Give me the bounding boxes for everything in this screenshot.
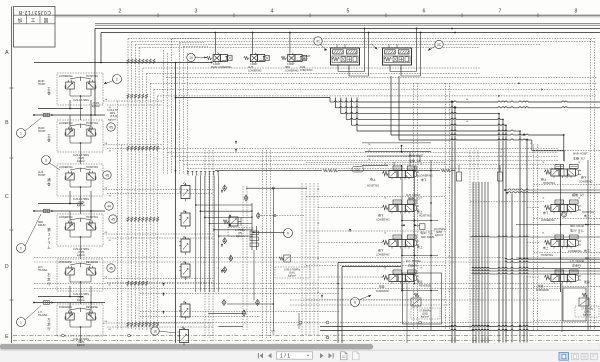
svg-text:REVERSE: REVERSE xyxy=(86,261,98,264)
wire bottom return bus 2 xyxy=(320,330,451,332)
remote control valve pair P2 (main hoist) xyxy=(57,120,103,152)
wire bank bus 8 (feeds B1 tank) xyxy=(399,139,451,141)
balloon 6 ref xyxy=(284,229,293,238)
main control valve row A1 (main hoist 2) xyxy=(383,166,420,180)
svg-text:巻上: 巻上 xyxy=(417,210,423,214)
SOL label box xyxy=(352,167,364,173)
pilot line dashed vertical x121.5 xyxy=(121,145,123,330)
sheet inner frame line upper xyxy=(95,22,600,24)
svg-text:CHECKING: CHECKING xyxy=(300,69,313,72)
wire cluster center daisy-chain xyxy=(80,105,82,120)
wire P6 ports up xyxy=(69,303,71,318)
check valve CV8 xyxy=(242,310,246,316)
balloon 16 ref xyxy=(151,327,159,335)
main control valve row A4 xyxy=(383,270,420,284)
svg-text:REVERSE: REVERSE xyxy=(419,285,431,288)
wire A column B rail xyxy=(414,166,416,284)
svg-text:kgf/cm²: kgf/cm² xyxy=(288,275,296,278)
svg-text:巻上: 巻上 xyxy=(584,214,590,218)
svg-text:SOL: SOL xyxy=(355,169,361,172)
svg-text:LOWERING: LOWERING xyxy=(59,216,73,219)
svg-text:TRAVEL: TRAVEL xyxy=(38,314,48,317)
sheet top edge line xyxy=(55,16,600,18)
pressure note SQ1 xyxy=(275,267,310,278)
toolbar view-mode button 4 xyxy=(591,353,598,360)
coiled hose symbols y60 xyxy=(127,59,129,64)
balloon 8 ref xyxy=(351,298,360,307)
toolbar last-page button xyxy=(329,353,333,358)
wire pilot supply bus Y1 xyxy=(95,28,600,30)
wire bottom center links xyxy=(227,303,273,305)
svg-text:kgf/cm²: kgf/cm² xyxy=(236,235,244,238)
svg-text:8: 8 xyxy=(354,300,356,304)
svg-text:巻上: 巻上 xyxy=(417,245,423,249)
wire inter-column links B2 feeds xyxy=(505,189,508,191)
wire bank bus 1 (corner) xyxy=(329,98,331,103)
pilot line bundle horizontal top xyxy=(128,38,595,40)
wire inter-column hop row y237 xyxy=(470,236,472,238)
svg-text:kgf/cm²: kgf/cm² xyxy=(583,314,591,317)
wire bottom-right vertical bundle A xyxy=(472,182,474,343)
horizontal scrollbar thumb xyxy=(0,344,373,349)
svg-text:D: D xyxy=(5,264,9,270)
horizontal scrollbar track xyxy=(0,344,600,351)
sheet border top rule xyxy=(55,14,600,16)
wire A1 risers xyxy=(393,162,395,166)
pressure note CB-B xyxy=(575,306,599,317)
relief valve RV1 xyxy=(223,217,241,226)
pilot line dashed vertical x117.5 xyxy=(117,101,119,330)
wire P5 ports down xyxy=(69,286,71,297)
svg-text:0.29-1.47MPa: 0.29-1.47MPa xyxy=(73,99,89,102)
wire supply joint line pair 1 xyxy=(38,108,83,110)
wire PB1 P port xyxy=(348,65,350,76)
pilot line verticals center-low xyxy=(204,150,206,338)
check valve CV9 xyxy=(256,300,260,306)
svg-text:前進: 前進 xyxy=(538,284,544,288)
svg-text:HOIST: HOIST xyxy=(38,174,46,177)
svg-text:8: 8 xyxy=(575,8,578,14)
coiled hose symbols y218 xyxy=(127,217,129,222)
svg-text:巻下: 巻下 xyxy=(581,176,587,180)
check valve CV2 xyxy=(244,195,248,201)
svg-text:10: 10 xyxy=(189,56,193,60)
svg-text:3: 3 xyxy=(45,158,47,162)
balloon 45 ref b xyxy=(103,171,111,179)
svg-text:kgf/cm²: kgf/cm² xyxy=(77,254,85,257)
drain line dash-dot bottom 1 xyxy=(13,335,600,337)
junction dots right bank rows xyxy=(401,225,403,227)
svg-text:kgf/cm²: kgf/cm² xyxy=(421,316,429,319)
pilot operated block PB2 xyxy=(383,48,412,65)
wire P4 ports up xyxy=(69,211,71,227)
remote control valve pair P4 (3rd drum) xyxy=(57,214,103,246)
tank return gallery xyxy=(251,203,253,250)
svg-text:巻上: 巻上 xyxy=(543,246,549,250)
svg-text:HOISTING: HOISTING xyxy=(86,75,98,78)
svg-text:ラ: ラ xyxy=(47,240,50,245)
cartridge valve bottom (ref 16) xyxy=(178,327,189,346)
balloon 41 ref xyxy=(314,37,322,45)
check valve CV3 xyxy=(256,213,260,219)
svg-text:1 / 1: 1 / 1 xyxy=(280,353,290,359)
svg-text:kgf/cm²: kgf/cm² xyxy=(92,105,100,108)
svg-text:45: 45 xyxy=(109,266,113,270)
svg-text:LOWERING: LOWERING xyxy=(248,69,262,72)
balloon 45 ref c xyxy=(109,215,117,223)
svg-text:主巻（1）: 主巻（1） xyxy=(573,156,587,161)
PB2 lever arrow xyxy=(371,44,378,50)
sub enclosure box B4 xyxy=(563,288,586,321)
PB1 top stubs xyxy=(336,44,338,48)
coiled hose symbols y95 xyxy=(127,94,129,99)
svg-text:後退: 後退 xyxy=(417,280,423,284)
svg-text:2: 2 xyxy=(119,8,122,14)
svg-text:HOISTING: HOISTING xyxy=(86,166,98,169)
svg-text:1: 1 xyxy=(20,320,22,324)
svg-text:C0J53712-B: C0J53712-B xyxy=(18,9,51,15)
wire SV1 pilot riser xyxy=(214,33,216,53)
port rings bottom xyxy=(326,321,329,324)
svg-text:FORWARD: FORWARD xyxy=(536,289,549,292)
sequence valve SQ1 xyxy=(279,255,290,262)
svg-text:3: 3 xyxy=(48,232,50,236)
wire pump line drop x175.5 xyxy=(175,63,177,344)
wire SV3 pilot riser xyxy=(289,33,291,53)
svg-text:7: 7 xyxy=(499,8,502,14)
wire A4 internal drop xyxy=(406,283,408,343)
toolbar first-page button xyxy=(260,353,264,358)
svg-text:1: 1 xyxy=(20,131,22,135)
coiled hose symbols y323 xyxy=(127,322,129,327)
svg-text:第3ドラム: 第3ドラム xyxy=(570,228,584,233)
wire bottom-left return pair xyxy=(337,263,339,344)
solenoid valve SV1 (3way main lowering) xyxy=(207,53,233,64)
toolbar next-page button xyxy=(320,353,324,358)
check valve CV4 xyxy=(223,238,227,244)
PB2 top stubs xyxy=(388,44,390,48)
wire inter-column links B4 feeds xyxy=(472,267,474,268)
svg-text:E: E xyxy=(5,334,9,340)
wire B column links xyxy=(560,214,562,225)
wire P3 ports down xyxy=(69,191,71,204)
wire A1 feed stubs xyxy=(365,151,431,153)
svg-text:6: 6 xyxy=(287,231,289,235)
pilot line bundle vertical center (manifold feeds) xyxy=(163,50,165,174)
pilot line verticals x302-318 (enclosure) xyxy=(301,183,303,335)
remote control valve pair P5 (RH travel) xyxy=(57,259,103,291)
tank symbol T2 xyxy=(297,325,301,329)
svg-text:LOWERING: LOWERING xyxy=(59,166,73,169)
wire manifold link y215 dashed xyxy=(261,215,304,217)
remote control valve pair P1 (main hoist) xyxy=(57,73,103,105)
wire A column riser xyxy=(430,160,432,330)
svg-text:kgf/cm²: kgf/cm² xyxy=(77,299,85,302)
svg-text:2: 2 xyxy=(116,77,118,81)
svg-text:3RD. DRUM: 3RD. DRUM xyxy=(421,236,434,239)
svg-text:MAIN HOIST: MAIN HOIST xyxy=(573,153,588,156)
balloon 1 ref #1 xyxy=(17,129,26,138)
enclosure dashed verticals x470-478 xyxy=(469,150,471,330)
svg-text:kgf/cm²: kgf/cm² xyxy=(108,119,116,122)
hose coupling 2 xyxy=(44,209,50,213)
main control valve row B3 (3rd drum) xyxy=(545,235,582,249)
wire pump line with coil from frame xyxy=(34,62,212,64)
solenoid valve SV3 (3way 3rd lowering) xyxy=(281,53,307,64)
remote control valve pair P3 (aux hoist) xyxy=(57,164,103,196)
toolbar next-view button xyxy=(353,352,360,360)
balloon 2 ref (P1) xyxy=(113,75,122,84)
svg-text:DRUM: DRUM xyxy=(38,224,46,227)
pilot line bundle bottom horizontals xyxy=(34,283,560,285)
wire bank bus 7 (feeds B1) xyxy=(391,134,451,136)
balloon 45 ref a xyxy=(107,123,115,131)
wire P1 ports to joint lines xyxy=(69,100,71,109)
balloon 10 ref xyxy=(187,53,195,61)
svg-text:kgf/cm²: kgf/cm² xyxy=(77,160,85,163)
svg-text:44: 44 xyxy=(107,204,111,208)
svg-text:HOIST: HOIST xyxy=(38,130,46,133)
pilot operated block PB1 xyxy=(331,48,360,65)
toolbar page number field xyxy=(277,352,313,359)
toolbar previous-page button xyxy=(268,353,272,358)
toolbar previous-view button xyxy=(341,352,348,360)
svg-text:kgf/cm²: kgf/cm² xyxy=(77,344,85,347)
sheet border left rule xyxy=(11,7,13,344)
manifold vertical extensions xyxy=(195,205,197,292)
small rect actuator a xyxy=(457,172,462,181)
svg-text:加: 加 xyxy=(18,17,23,24)
svg-text:第3ドラム: 第3ドラム xyxy=(421,231,433,235)
svg-text:巻下: 巻下 xyxy=(378,214,384,218)
wire bank bus 4 (corner) xyxy=(345,98,347,120)
balloon 1 ref #3 xyxy=(17,318,26,327)
tank symbol T1 xyxy=(271,331,275,335)
pilot line bundle vertical left (to remote control valves) xyxy=(127,39,129,331)
pressure note RV1 xyxy=(228,228,253,237)
svg-text:MAIN LOWERING: MAIN LOWERING xyxy=(211,66,232,69)
svg-text:HOISTING: HOISTING xyxy=(541,254,553,257)
pilot line bundle horizontal mid long xyxy=(150,82,597,84)
wire bank bus 6 (corner) xyxy=(356,98,358,132)
main control valve row B2 (aux hoist 2) xyxy=(545,200,582,214)
enclosure dashed rails column B xyxy=(534,149,600,151)
svg-text:A: A xyxy=(5,50,9,56)
svg-text:HOISTING: HOISTING xyxy=(86,122,98,125)
svg-text:4: 4 xyxy=(271,8,274,14)
wire B column P rail xyxy=(560,164,562,292)
svg-text:工: 工 xyxy=(31,18,36,23)
svg-text:右走行: 右走行 xyxy=(408,263,417,268)
svg-text:LOWERING: LOWERING xyxy=(376,254,390,257)
shuttle valve B2 xyxy=(561,212,566,217)
pilot line dashed y77.5 xyxy=(166,77,597,79)
drain line dash-dot bottom 2 xyxy=(13,340,600,342)
wire pilot supply bus Y2 xyxy=(101,32,600,34)
main control valve row A3 (RH travel) xyxy=(383,235,420,249)
wire manifold link y232 to balloon 6 xyxy=(252,231,285,233)
small rect actuator b xyxy=(498,172,503,181)
sheet inner frame line lower xyxy=(95,24,600,26)
hose coupling 1 xyxy=(44,113,50,117)
wire supply joint line pair 2 xyxy=(38,203,83,205)
balloon 4C ref xyxy=(435,40,443,48)
wire inter-column links B3 outs xyxy=(505,258,507,259)
balloon 44 ref xyxy=(105,202,113,210)
wire PB2 P port xyxy=(400,65,402,76)
svg-text:4C: 4C xyxy=(437,43,442,47)
sheet border row tick marks xyxy=(10,87,14,89)
sub enclosure box A4 xyxy=(403,273,442,324)
wire A column links xyxy=(401,214,403,221)
pilot line corner horizontals from center bundle xyxy=(172,38,201,40)
arrowheads on pilot bundle right xyxy=(518,82,520,84)
svg-text:巻下: 巻下 xyxy=(421,178,427,182)
svg-text:HOIST: HOIST xyxy=(38,83,46,86)
coiled hose symbols y147 xyxy=(127,146,129,151)
pilot line bundle mid horizontal cluster xyxy=(164,148,559,150)
check valve CV1 xyxy=(223,185,227,191)
vent arrows on pilot lines xyxy=(163,283,165,286)
balloon 1 ref #2 xyxy=(17,244,26,253)
title block cell separators xyxy=(26,15,28,24)
wire bank bus 5 (corner) xyxy=(351,98,353,126)
svg-text:巻上: 巻上 xyxy=(541,178,547,182)
svg-text:LOWERING: LOWERING xyxy=(579,181,593,184)
enclosure dashed rails column A xyxy=(306,162,445,164)
cylinder port marks bottom right xyxy=(452,337,488,343)
enclosure dashed verticals x590-597 xyxy=(590,39,592,331)
svg-text:ド: ド xyxy=(47,237,50,241)
cartridge valve stack xyxy=(179,183,190,202)
pilot line verticals x262-270 xyxy=(262,150,264,338)
toolbar view-mode button 2 xyxy=(572,353,579,360)
check valve CV5 xyxy=(229,255,233,261)
svg-text:LOWERING: LOWERING xyxy=(285,69,299,72)
balloon 3 ref (P3) xyxy=(42,156,51,165)
main control valve row B1 (main hoist 1) xyxy=(545,165,582,179)
svg-text:41: 41 xyxy=(316,39,320,43)
wire bus Y2 drop at left x101 xyxy=(100,33,102,63)
enclosure dashed verticals x445-452 xyxy=(445,83,447,330)
hose coupling 3 xyxy=(44,301,50,305)
svg-text:REVERSE: REVERSE xyxy=(86,306,98,309)
svg-text:BKT: BKT xyxy=(303,58,308,61)
svg-text:HOISTING: HOISTING xyxy=(367,185,379,188)
main control valve row B4 (LH travel) xyxy=(545,270,582,284)
title block frame xyxy=(14,7,56,48)
svg-text:3: 3 xyxy=(195,8,198,14)
svg-text:C: C xyxy=(5,194,9,200)
wire supply joint line pair 3 xyxy=(38,296,83,298)
sheet border column tick marks xyxy=(157,13,159,17)
wire B2 dashed feed y201.8 xyxy=(470,201,544,203)
svg-text:HOISTING: HOISTING xyxy=(86,216,98,219)
svg-text:16: 16 xyxy=(153,329,157,333)
counterbalance valve CB-A xyxy=(411,293,421,306)
enclosure dashed verticals x533-540 xyxy=(533,144,535,330)
svg-text:巻上: 巻上 xyxy=(370,178,376,182)
svg-text:6: 6 xyxy=(423,8,426,14)
svg-text:TRAVEL: TRAVEL xyxy=(38,269,48,272)
svg-text:前進: 前進 xyxy=(379,285,385,289)
check valve CV7 xyxy=(222,300,226,306)
svg-text:FORWARD: FORWARD xyxy=(59,261,72,264)
wire P2 ports up to joint lines xyxy=(69,115,71,133)
wire bus Y1 drop at left x95 xyxy=(94,29,96,116)
junction dots on Y buses xyxy=(451,28,453,30)
toolbar view-mode button 3 xyxy=(581,353,588,360)
svg-text:LOWERING: LOWERING xyxy=(59,75,73,78)
svg-text:LOWERING: LOWERING xyxy=(376,219,390,222)
coiled hose symbols y282 xyxy=(127,281,129,286)
svg-text:45: 45 xyxy=(105,173,109,177)
supply line to A-bank with hose coils xyxy=(215,170,322,172)
wire A column P rail xyxy=(401,166,403,291)
svg-text:HOISTING: HOISTING xyxy=(419,215,431,218)
wire right bank verticals descending xyxy=(451,102,453,343)
svg-text:FORWARD: FORWARD xyxy=(376,290,389,293)
pilot line bundle horizontal mid short xyxy=(143,67,480,69)
pilot line verticals x243 x247 xyxy=(242,186,244,330)
counterbalance valve CB-B xyxy=(579,293,589,306)
svg-text:45: 45 xyxy=(111,217,115,221)
remote control valve pair P6 (LH travel) xyxy=(57,304,103,336)
wire bank bus 2 (corner) xyxy=(334,98,336,108)
svg-text:巻下: 巻下 xyxy=(378,249,384,253)
wire bottom return bus 1 xyxy=(320,326,451,328)
wire manifold link y188 xyxy=(246,187,307,189)
enclosure dashed verticals x413-420 xyxy=(413,83,415,330)
toolbar view-mode button active (single page) xyxy=(559,353,569,361)
manifold gallery verticals xyxy=(195,176,197,206)
svg-text:LOWERING: LOWERING xyxy=(59,122,73,125)
wire bank bus 3 (corner) xyxy=(340,98,342,114)
wire B column riser xyxy=(587,160,589,330)
solenoid valve SV2 (3way aux lowering) xyxy=(244,53,270,64)
svg-text:kgf/cm²: kgf/cm² xyxy=(435,234,443,237)
main control valve row A2 (aux hoist 1) xyxy=(383,200,420,214)
wire A1 feed stub y142.9 xyxy=(362,142,431,144)
svg-text:5: 5 xyxy=(347,8,350,14)
boundary dashed lines y257-262 across sheet xyxy=(34,257,505,259)
wire A column row feeds from pilot rails xyxy=(318,207,382,209)
balloon 45 ref d xyxy=(107,264,115,272)
svg-text:B: B xyxy=(5,120,9,126)
svg-text:巻下: 巻下 xyxy=(543,211,549,215)
wire SV2 pilot riser xyxy=(252,33,254,53)
svg-text:45: 45 xyxy=(109,125,113,129)
svg-text:後退: 後退 xyxy=(584,280,590,284)
wire manifold feed header y97.5 xyxy=(176,97,331,99)
manifold top port ticks xyxy=(187,171,189,176)
wire PB2 T port xyxy=(389,65,391,72)
wire PB1 T port xyxy=(337,65,339,72)
solenoid box on A3 feed xyxy=(420,224,426,230)
svg-text:kgf/cm²: kgf/cm² xyxy=(77,204,85,207)
pilot stub pairs from remote-control clusters xyxy=(103,100,162,102)
pressure note CB-A xyxy=(411,308,440,319)
bottom toolbar background xyxy=(0,350,600,362)
check valve CV6 xyxy=(223,267,227,273)
wire B4 internal drop xyxy=(561,283,563,332)
svg-text:LOWERING: LOWERING xyxy=(541,219,555,222)
svg-text:1: 1 xyxy=(20,246,22,250)
